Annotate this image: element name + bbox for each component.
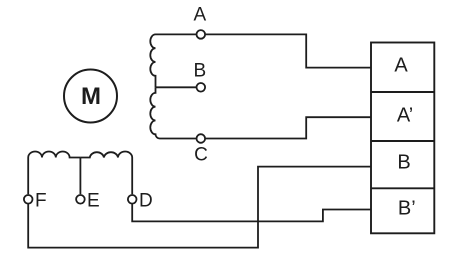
terminal block TB1 [371, 43, 434, 234]
svg-text:A: A [394, 55, 408, 77]
terminal C [197, 134, 206, 143]
svg-text:A: A [193, 4, 206, 25]
svg-text:M: M [81, 83, 101, 110]
wire: terminal C to block cell A' [205, 117, 371, 138]
inductor L2 right winding (E to D) [80, 152, 132, 195]
svg-text:D: D [139, 190, 153, 211]
terminal B [197, 83, 206, 92]
wire: terminal D to block cell B' [132, 204, 371, 222]
inductor L2 left winding (F to E) [28, 152, 80, 195]
divider A/A' [371, 91, 434, 93]
svg-text:B: B [397, 152, 410, 174]
wire: L2 center tap to terminal E [79, 158, 81, 195]
inductor L1 upper winding (A to B) [150, 34, 196, 87]
wire: terminal A to block cell A [205, 34, 371, 67]
terminal A [197, 30, 206, 39]
inductor L1 lower winding (B to C) [150, 87, 196, 138]
svg-text:F: F [35, 190, 47, 211]
wire: L1 center tap to terminal B [156, 86, 197, 88]
divider A'/B [371, 140, 434, 142]
wire: terminal F to block cell B [28, 167, 371, 248]
terminal D [128, 195, 137, 204]
svg-text:A’: A’ [397, 105, 413, 127]
motor M [64, 70, 117, 123]
svg-text:B’: B’ [398, 197, 416, 219]
terminal F [24, 195, 33, 204]
svg-text:C: C [194, 144, 208, 165]
divider B/B' [371, 187, 434, 189]
terminal E [76, 195, 85, 204]
svg-text:B: B [193, 61, 206, 82]
svg-text:E: E [87, 190, 100, 211]
